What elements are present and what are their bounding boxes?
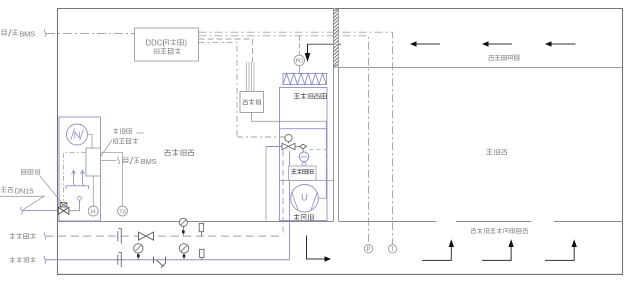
label: 空调机房 <box>165 149 194 156</box>
label: 吊顶回风箱 <box>489 55 519 60</box>
leader line for DN15 <box>0 196 44 210</box>
sensor P <box>364 245 372 253</box>
wire: controller BMS stub <box>101 160 117 162</box>
ceiling line of return plenum <box>339 67 623 69</box>
label: 主机房 <box>486 149 507 155</box>
svg-text:DN15: DN15 <box>15 187 34 196</box>
cooling coil box 表冷盘管 <box>288 166 316 180</box>
break squiggle on BMS line <box>44 30 46 37</box>
cable bundle to starter cabinet <box>247 62 255 92</box>
arrow: return air 1 <box>417 43 441 45</box>
svg-text:PD: PD <box>296 59 303 65</box>
union on return pipe <box>118 229 122 244</box>
arrow: return air 3 <box>552 43 576 45</box>
left cabinet box (humidifier section) <box>59 117 101 221</box>
union on supply pipe <box>118 252 122 267</box>
wire: controller to solenoid valve (dash-dot) <box>64 153 87 201</box>
sensor T <box>388 245 396 253</box>
strainer on supply <box>154 257 166 268</box>
svg-text:H: H <box>91 209 96 216</box>
svg-text:Td: Td <box>119 209 126 215</box>
return riser (dashed) <box>282 151 284 237</box>
wall below ceiling (double line) <box>334 67 339 221</box>
solenoid valve SV body <box>58 207 69 214</box>
valve on return pipe <box>139 232 154 240</box>
break squiggle return <box>44 233 46 240</box>
floor line left section <box>57 221 334 223</box>
arrow: floor supply outlet 3 <box>545 247 574 260</box>
AHU internal partition <box>280 128 328 130</box>
svg-text:): ) <box>184 39 187 48</box>
DDC controller box <box>135 28 199 61</box>
label: 冷水回水 <box>10 233 36 239</box>
coil section partition to wall <box>280 179 334 181</box>
gauge PG2 on supply <box>134 244 143 253</box>
pipe: chilled water supply <box>46 259 290 261</box>
starter cabinet 启动柜 <box>240 92 264 113</box>
wire: DDC output L1 to T sensor <box>199 32 393 244</box>
coil pipe header <box>266 146 300 148</box>
arrow: floor supply outlet 2 <box>482 247 511 260</box>
arrow: return air 2 <box>489 43 513 45</box>
thermometer TW2 on supply <box>200 249 204 257</box>
svg-text:BMS: BMS <box>19 29 35 38</box>
wire: controller to H <box>92 176 94 206</box>
label: 给水专业DN15 <box>0 187 13 193</box>
label: 机组自带 <box>113 138 138 144</box>
valve V1 actuator <box>285 134 292 141</box>
break squiggle <box>118 157 120 164</box>
humidifier steam arrows <box>66 171 89 190</box>
sensor Td <box>118 206 128 216</box>
label: 自/至BMS (controller) <box>124 157 140 164</box>
svg-text:T: T <box>391 247 395 253</box>
label: 冷水供水 <box>10 257 36 263</box>
machine room wall (hatched above ceiling) <box>334 9 339 68</box>
label: 控制器 <box>113 128 132 134</box>
label: 送风机 <box>294 214 314 220</box>
break squiggle on DN15 pipe <box>21 207 23 214</box>
gauge PG3 on supply <box>179 244 188 253</box>
label: 中效过滤器 <box>294 93 327 99</box>
AHU casing box <box>280 88 328 221</box>
supply riser <box>289 151 291 260</box>
break squiggle supply <box>44 256 46 263</box>
label: 高架地板送风静压箱 <box>471 228 528 234</box>
leader to controller label <box>101 133 144 157</box>
svg-text:P: P <box>366 247 370 253</box>
supply fan U <box>291 184 319 212</box>
svg-text:BMS: BMS <box>141 157 157 166</box>
gauge PG1 on return <box>179 218 187 226</box>
wire: N to controller <box>88 135 93 149</box>
pipe drop at coil left <box>265 147 267 221</box>
sensor PD <box>294 55 304 65</box>
wire: controller to Td sensor <box>101 153 123 206</box>
label: 自/至BMS (top left) <box>2 29 18 36</box>
wire: DDC output L2 to P sensor <box>199 36 369 245</box>
svg-text:U: U <box>301 192 308 203</box>
wire: PD stem to filter <box>299 66 301 74</box>
svg-text:N: N <box>74 130 81 141</box>
return air drop duct line <box>308 43 342 45</box>
balancing diamond <box>300 144 307 149</box>
wire: BMS dash-dot line to DDC <box>46 32 134 34</box>
wire: valve control dashes to AHU edge <box>310 150 328 168</box>
pipe: chilled water return (dashed) <box>46 235 283 237</box>
pipe: make-up water DN15 <box>23 210 59 212</box>
humidifier pan <box>66 186 89 189</box>
wire: branch to PD sensor <box>299 36 301 55</box>
wire: starter cabinet power feed to fan <box>252 113 327 199</box>
label: 电磁阀 + leader <box>22 169 40 175</box>
unit controller box <box>86 148 101 176</box>
wire: DDC output L3 to starter cabinet <box>199 39 253 62</box>
pipe: valve to spray header <box>69 200 80 210</box>
humidifier motor N <box>67 124 88 145</box>
valve V1 body (two-way control valve) <box>282 143 295 150</box>
svg-text:DDC(: DDC( <box>146 39 166 48</box>
sensor H <box>88 206 98 216</box>
solenoid valve SV coil <box>60 203 67 207</box>
thermometer TW1 on return <box>199 223 203 231</box>
label: 机组自带 (inside DDC box) <box>154 48 181 54</box>
air vent circle <box>302 149 304 152</box>
filter band (zigzag) <box>283 74 327 85</box>
raised floor line (with outlet gaps) <box>339 221 623 223</box>
arrow: floor supply outlet 1 <box>422 247 451 260</box>
wire: DDC output L4 to coil valve actuator <box>199 42 286 137</box>
arrow: supply air into floor plenum <box>307 236 325 260</box>
arrow: return air into AHU (down) <box>307 44 309 53</box>
